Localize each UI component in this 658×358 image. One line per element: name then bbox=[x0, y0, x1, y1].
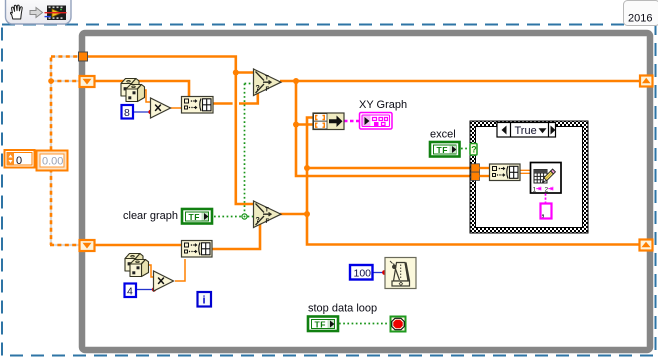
svg-text:clear graph: clear graph bbox=[123, 210, 178, 222]
case structure border bbox=[470, 121, 588, 233]
wire bundle upper / select2 output trunk bbox=[307, 118, 639, 245]
select node 1 bbox=[254, 69, 282, 96]
coercion dot multiply2 bbox=[152, 287, 156, 291]
junction select1 T branch bbox=[233, 70, 239, 76]
shift register right 2 bbox=[640, 240, 653, 251]
coercion dot multiply1 bbox=[148, 110, 152, 114]
build array 1 bbox=[182, 97, 214, 114]
svg-text:F: F bbox=[266, 219, 270, 225]
svg-text:stop data loop: stop data loop bbox=[308, 303, 377, 315]
case selector label bbox=[497, 123, 556, 138]
boolean control stop data loop bbox=[308, 317, 338, 332]
XY Graph terminal bbox=[360, 113, 393, 130]
tools palette tab bbox=[6, 0, 72, 24]
wire multiply2 to build array 2 bbox=[175, 259, 185, 281]
filmstrip/probe tool icon bbox=[45, 6, 67, 21]
shift register left 2 bbox=[80, 240, 95, 251]
wire select1 output to right shift register 1 bbox=[280, 80, 639, 83]
svg-text:F: F bbox=[266, 87, 270, 93]
wire bundle to XY graph (pink dashed) bbox=[344, 120, 360, 122]
case selector boolean tunnel ? bbox=[470, 144, 477, 156]
wire dashed to shift register 2 bbox=[50, 244, 80, 247]
junction select2 output bbox=[304, 211, 310, 217]
wire dashed vertical from control 0 bbox=[50, 57, 80, 246]
multiply node 2 bbox=[154, 271, 174, 291]
svg-text:TF: TF bbox=[315, 319, 327, 329]
wire boolean into select1 s input bbox=[245, 83, 255, 85]
svg-text:?: ? bbox=[256, 217, 260, 224]
numeric constant 100 bbox=[350, 265, 373, 280]
junction bundle lower branch bbox=[293, 122, 299, 128]
shift register left 1 bbox=[80, 76, 95, 87]
svg-text:excel: excel bbox=[430, 129, 456, 141]
loop condition stop button bbox=[391, 317, 406, 332]
while loop border bbox=[82, 33, 650, 350]
svg-text:i: i bbox=[203, 295, 206, 307]
svg-text:TF: TF bbox=[189, 212, 201, 222]
wire shift register 1 to build array 1 bbox=[95, 81, 189, 97]
dice (random number) 2 bbox=[125, 254, 149, 277]
dice (random number) 1 bbox=[121, 79, 145, 102]
svg-text:T: T bbox=[265, 208, 269, 214]
wire multiply1 to build array 1 bbox=[170, 107, 182, 109]
svg-text:2: 2 bbox=[545, 186, 549, 193]
svg-text:4: 4 bbox=[127, 285, 133, 297]
boolean control excel bbox=[430, 142, 460, 157]
wire dice1 to multiply1 bbox=[140, 90, 151, 102]
wire branch to bundle lower input bbox=[296, 123, 313, 126]
wire trunk to case upper tunnel bbox=[307, 167, 471, 170]
wire dashed to shift register 1 bbox=[50, 80, 80, 83]
svg-text:XY Graph: XY Graph bbox=[359, 99, 407, 111]
shift register right 1 bbox=[640, 76, 653, 87]
junction select1 output branch bbox=[293, 78, 299, 84]
svg-text:100: 100 bbox=[354, 267, 372, 279]
junction boolean wire bbox=[242, 214, 247, 219]
wire tunnels to build array 3 bbox=[480, 168, 491, 176]
svg-text:?: ? bbox=[256, 85, 260, 92]
svg-text:,: , bbox=[542, 207, 545, 219]
string constant comma bbox=[541, 204, 552, 220]
wire shift register 2 to build array 2 bbox=[95, 244, 181, 247]
case tunnel lower bbox=[471, 172, 480, 180]
write delimited spreadsheet node bbox=[531, 163, 562, 194]
multiply node 1 bbox=[151, 98, 171, 118]
svg-text:1: 1 bbox=[533, 186, 537, 193]
wire string constant to write node (pink dashed) bbox=[545, 194, 547, 204]
wire select2 output bbox=[280, 213, 307, 216]
svg-text:T: T bbox=[265, 76, 269, 82]
svg-text:True: True bbox=[515, 125, 537, 137]
wire tunnel to vertical trunk bbox=[86, 57, 254, 205]
wait (ms) metronome node bbox=[385, 258, 416, 289]
svg-text:0: 0 bbox=[16, 155, 22, 167]
wire blue constant 4 to multiply2 bbox=[137, 289, 153, 291]
wire blue constant 100 to wait node bbox=[373, 272, 383, 274]
wire 2D array build array 3 to write node bbox=[520, 170, 531, 173]
tunnel top left bbox=[79, 52, 88, 61]
select node 2 bbox=[254, 201, 282, 228]
wire boolean stop to loop condition bbox=[339, 323, 389, 325]
junction on dashed wire bbox=[48, 78, 54, 84]
junction case upper branch bbox=[304, 165, 310, 171]
svg-text:?: ? bbox=[471, 145, 477, 155]
wire build array 1 to select1 F input (gap at crossing) bbox=[213, 102, 233, 105]
numeric control 0 bbox=[5, 150, 35, 168]
svg-text:0.00: 0.00 bbox=[42, 156, 63, 168]
wire dashed to top tunnel bbox=[51, 55, 80, 58]
boolean control clear graph bbox=[182, 209, 212, 224]
case tunnel upper bbox=[471, 164, 480, 172]
wire dice2 to multiply2 bbox=[145, 265, 154, 277]
build array 3 bbox=[490, 164, 521, 181]
hand tool icon bbox=[11, 5, 23, 19]
2016 version tab bbox=[624, 1, 658, 26]
wire boolean clear graph to selects bbox=[214, 216, 253, 218]
wire trunk to select1 T input bbox=[236, 71, 254, 74]
numeric constant 8 bbox=[122, 105, 134, 119]
wire build array 2 to select2 F input bbox=[212, 220, 260, 249]
wire blue constant 8 to multiply1 bbox=[133, 111, 150, 113]
iteration terminal i bbox=[198, 292, 212, 307]
coercion dot wait node bbox=[382, 270, 387, 275]
bundle node bbox=[313, 113, 344, 130]
positioning arrow tool icon bbox=[30, 8, 43, 18]
wire dashed underlay bbox=[50, 57, 80, 246]
numeric constant 0.00 bbox=[37, 151, 68, 171]
numeric constant 4 bbox=[125, 284, 137, 298]
pencil bbox=[541, 169, 555, 183]
wire boolean vertical to select1 bbox=[244, 84, 246, 217]
svg-text:8: 8 bbox=[124, 107, 130, 119]
wire boolean excel to case selector bbox=[461, 148, 470, 150]
build array 2 bbox=[182, 241, 213, 258]
svg-text:TF: TF bbox=[437, 145, 449, 155]
wire select1 branch down to bundle and case tunnel bbox=[296, 81, 471, 176]
svg-text:2016: 2016 bbox=[628, 13, 652, 25]
